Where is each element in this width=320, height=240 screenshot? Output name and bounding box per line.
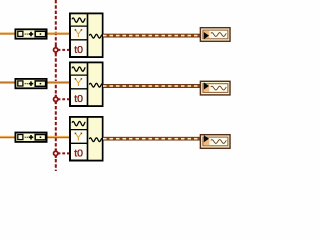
junction J3 (t0 trunk tap) bbox=[54, 149, 58, 158]
junction J2 (t0 trunk tap) bbox=[54, 95, 58, 104]
wire t0 branch row 2 bbox=[58, 98, 70, 100]
wire t0 trunk (vertical dashed maroon timestamp wire) bbox=[55, 0, 57, 171]
wire Y2 (orange DBL data into Build Waveform) bbox=[0, 82, 70, 83]
wire t0 branch row 1 bbox=[58, 49, 70, 51]
terminal icon 1 (numeric source) bbox=[15, 29, 46, 38]
wire Y3 (orange DBL data into Build Waveform) bbox=[0, 137, 70, 138]
Build Waveform node U2 bbox=[70, 62, 103, 108]
indicator terminal IND2 (waveform graph) bbox=[200, 81, 230, 95]
svg-text:t0: t0 bbox=[74, 44, 83, 56]
terminal icon 2 (numeric source) bbox=[15, 79, 46, 88]
junction J1 (t0 trunk tap) bbox=[54, 45, 58, 54]
svg-text:t0: t0 bbox=[74, 93, 83, 105]
wire Y1 (orange DBL data into Build Waveform) bbox=[0, 33, 70, 34]
wire t0 branch row 3 bbox=[58, 152, 70, 154]
indicator terminal IND1 (waveform graph) bbox=[200, 28, 230, 42]
wire WF2 (waveform out, brown dashed) bbox=[103, 84, 200, 88]
svg-text:t0: t0 bbox=[74, 148, 83, 160]
terminal icon 3 (numeric source) bbox=[15, 133, 46, 142]
wire WF1 (waveform out, brown dashed) bbox=[103, 34, 200, 38]
indicator terminal IND3 (waveform graph) bbox=[200, 135, 230, 149]
Build Waveform node U3 bbox=[70, 116, 103, 162]
Build Waveform node U1 bbox=[70, 13, 103, 59]
wire WF3 (waveform out, brown dashed) bbox=[103, 137, 200, 141]
